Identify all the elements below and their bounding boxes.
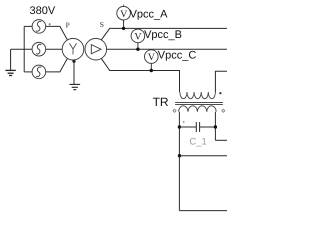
wire stub to source Va	[24, 25, 32, 27]
svg-text:V: V	[148, 52, 156, 63]
wire source V3 to transformer primary	[46, 58, 68, 72]
capacitor C_1	[179, 122, 215, 132]
node capacitor right	[214, 125, 217, 128]
TR marker diamond right	[222, 109, 225, 112]
Y glyph	[69, 43, 76, 54]
node voltmeter C on wire C	[150, 69, 153, 72]
svg-text:TR: TR	[153, 95, 169, 109]
transformer TR top winding	[180, 92, 216, 99]
plus mark of C_1	[183, 121, 185, 123]
node at Y neutral	[72, 60, 75, 63]
wire phase B from delta to right edge	[107, 48, 227, 50]
wire capacitor right leg to right edge	[215, 139, 227, 141]
AC source V1	[32, 20, 46, 34]
svg-text:Vpcc_C: Vpcc_C	[158, 50, 197, 62]
wire stub to source Vb and ground	[11, 48, 33, 50]
svg-text:V: V	[134, 32, 142, 43]
svg-text:P: P	[66, 21, 70, 30]
svg-text:380V: 380V	[30, 5, 56, 17]
TR bottom winding	[179, 106, 217, 112]
delta triangle glyph	[91, 45, 101, 54]
wire bus left vertical	[23, 26, 25, 72]
node capacitor left	[178, 125, 181, 128]
svg-text:C_1: C_1	[189, 136, 206, 147]
node voltmeter B on wire B	[136, 48, 139, 51]
voltmeter Vpcc_B	[131, 29, 145, 49]
AC source V2	[32, 42, 46, 56]
wire source V2 to transformer primary	[46, 48, 63, 50]
ground G1	[5, 49, 15, 75]
wire right edge to TR secondary top	[215, 71, 227, 92]
node voltmeter A on wire A	[122, 27, 125, 30]
svg-text:S: S	[100, 20, 104, 29]
wire junction to right edge	[180, 155, 228, 157]
transformer primary winding circle Y	[62, 38, 84, 60]
transformer secondary winding circle Delta	[85, 38, 107, 60]
voltmeter Vpcc_A	[117, 5, 131, 29]
ground G2	[70, 84, 81, 89]
TR marker diamond left	[173, 109, 176, 112]
svg-text:V: V	[120, 9, 128, 20]
plus mark of V1	[49, 23, 51, 25]
wire phase A from delta to right edge	[101, 28, 227, 40]
voltmeter Vpcc_C	[145, 50, 159, 71]
wire Y neutral to ground	[73, 60, 75, 84]
wire TR secondary left leg down	[178, 112, 180, 211]
TR core lines	[175, 102, 223, 104]
wire stub to source Vc	[24, 71, 32, 73]
node lower left junction	[178, 154, 181, 157]
wire TR secondary right leg down	[214, 112, 216, 141]
svg-text:Vpcc_B: Vpcc_B	[144, 29, 182, 41]
wire source V1 to transformer primary	[46, 26, 68, 40]
wire phase C from delta to TR primary	[101, 58, 179, 92]
TR polarity dot top right	[219, 92, 221, 94]
AC source V3	[32, 65, 46, 79]
svg-text:Vpcc_A: Vpcc_A	[130, 9, 169, 21]
wire bottom to right edge	[179, 210, 227, 212]
